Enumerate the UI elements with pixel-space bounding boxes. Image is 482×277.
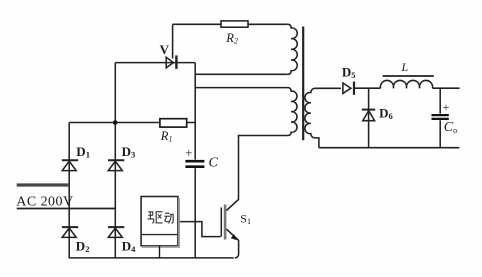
IGBT S1 body bar (224, 205, 227, 240)
svg-text:+: + (443, 100, 450, 114)
capacitor C0 plates (432, 115, 449, 119)
driver box (141, 197, 179, 258)
wire bridge left leg (68, 123, 70, 258)
diode D5 (343, 83, 351, 93)
wire output bottom rail (319, 147, 459, 149)
inductor L (380, 80, 432, 88)
resistor R2 (221, 21, 248, 27)
wire vertical from top rail down to diode V (172, 24, 174, 58)
diode D6 (363, 111, 375, 121)
svg-text:D5: D5 (342, 65, 356, 81)
inductor core bar (383, 75, 434, 77)
wire bridge top rail (69, 122, 195, 124)
resistor R1 (160, 119, 187, 127)
wire bridge right leg (114, 63, 116, 258)
node dot bridge junction (113, 120, 118, 125)
diode D1 (62, 161, 76, 170)
diode D4 (108, 228, 122, 237)
diode V cathode bar (175, 55, 177, 69)
svg-text:D2: D2 (76, 239, 90, 255)
svg-text:S1: S1 (240, 211, 251, 226)
wire top clamp rail y=24.3 (173, 23, 288, 25)
svg-text:D3: D3 (122, 144, 136, 160)
svg-text:V: V (160, 42, 170, 57)
wire vertical bus x=195.2 upper (V cathode to C top) (194, 63, 196, 160)
transformer core (302, 27, 304, 141)
transformer primary winding 1 (reset) (288, 24, 297, 74)
svg-text:D1: D1 (76, 144, 90, 160)
diode D2 (62, 228, 76, 237)
wire D6 branch vertical (368, 88, 370, 148)
wire driver box ground stub (159, 246, 161, 258)
label 驱动 (drawn strokes) (148, 212, 174, 224)
svg-text:R2: R2 (225, 31, 238, 46)
svg-text:R1: R1 (160, 129, 173, 144)
diode D3 (108, 161, 122, 170)
diode V triangle (166, 57, 173, 68)
wire anode feed y=62.6 from bridge node to corner (115, 62, 195, 64)
transformer primary winding 2 (main) (195, 88, 297, 211)
wire L to output + terminal (433, 87, 460, 89)
wire output capacitor C0 leads (439, 88, 441, 148)
svg-text:L: L (401, 60, 409, 74)
wire AC input line 1 (17, 183, 69, 186)
wire tap to reset winding bottom y=74.3 (195, 73, 288, 75)
IGBT S1 emitter lead (226, 229, 238, 258)
wire secondary top rail D5 to L (355, 87, 381, 89)
wire AC input line 2 (17, 208, 116, 210)
svg-text:AC 200V: AC 200V (16, 195, 73, 210)
transformer secondary winding (305, 88, 341, 147)
svg-text:Co: Co (444, 120, 457, 135)
IGBT emitter arrow (231, 234, 237, 240)
svg-text:+: + (185, 146, 192, 160)
svg-text:D4: D4 (122, 239, 136, 255)
IGBT S1 gate bar (220, 208, 222, 237)
capacitor C plates (185, 161, 204, 167)
svg-text:C: C (209, 156, 219, 171)
wire driver output to gate (178, 222, 221, 237)
wire bottom ground rail (69, 257, 234, 259)
svg-text:D6: D6 (379, 105, 393, 121)
wire vertical bus x=195.2 lower (C bottom to ground rail) (194, 168, 196, 258)
